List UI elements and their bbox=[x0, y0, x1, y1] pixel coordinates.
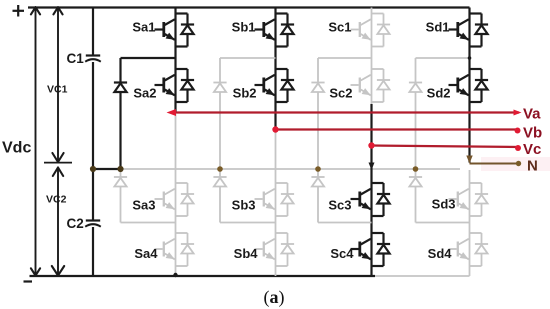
IGBT Sb1 bbox=[255, 14, 276, 47]
IGBT Sa4 bbox=[155, 233, 176, 266]
wire: negative DC bus (bottom rail, active part) bbox=[30, 275, 376, 277]
svg-text:Sd2: Sd2 bbox=[427, 86, 451, 101]
IGBT Sb2 bbox=[255, 69, 276, 102]
svg-text:Vdc: Vdc bbox=[2, 140, 31, 157]
antiparallel diode of Sc3 bbox=[372, 183, 391, 216]
svg-text:Sc3: Sc3 bbox=[328, 198, 351, 213]
svg-text:Sa4: Sa4 bbox=[134, 246, 158, 261]
IGBT Sc4 bbox=[351, 233, 372, 266]
IGBT Sd2 bbox=[449, 69, 470, 102]
svg-text:Sa3: Sa3 bbox=[132, 198, 155, 213]
clamp diode Dd1 (upper) bbox=[409, 58, 422, 169]
svg-text:Sa2: Sa2 bbox=[133, 86, 156, 101]
wire: neutral output N bbox=[470, 161, 522, 166]
capacitor C1 bbox=[85, 56, 101, 62]
wire: leg c output stub bbox=[369, 102, 375, 183]
node: clamp-b neutral junction bbox=[217, 166, 223, 172]
wire: phase output Vc bbox=[368, 142, 521, 151]
wire: phase output Va bbox=[167, 109, 522, 116]
svg-text:Sc4: Sc4 bbox=[330, 246, 354, 261]
antiparallel diode of Sb4 bbox=[276, 233, 295, 266]
node: capacitor midpoint junction bbox=[90, 166, 96, 172]
svg-text:Va: Va bbox=[523, 106, 541, 123]
IGBT Sb3 bbox=[255, 183, 276, 216]
antiparallel diode of Sb1 bbox=[276, 14, 295, 47]
antiparallel diode of Sa1 bbox=[176, 14, 195, 47]
node: clamp-c neutral junction bbox=[315, 166, 321, 172]
clamp diode Dd2 (lower) bbox=[409, 169, 422, 223]
svg-text:Sc1: Sc1 bbox=[328, 20, 351, 35]
node: minus terminal bbox=[24, 280, 33, 282]
wire: leg d upper main bbox=[468, 8, 470, 70]
wire: leg b upper main bbox=[274, 8, 276, 70]
wire: leg c junction-A link bbox=[318, 57, 372, 59]
svg-text:C2: C2 bbox=[67, 216, 84, 231]
IGBT Sa2 bbox=[155, 69, 176, 102]
svg-text:Sd4: Sd4 bbox=[428, 246, 453, 261]
svg-text:VC1: VC1 bbox=[47, 84, 68, 96]
wire: phase output Vb bbox=[272, 126, 520, 133]
svg-text:Sc2: Sc2 bbox=[329, 86, 352, 101]
clamp diode Da2 (lower) bbox=[114, 169, 127, 223]
wire: leg a junction-B link bbox=[121, 222, 176, 224]
wire: leg b lower main bbox=[275, 132, 277, 277]
wire: leg c lower main bbox=[370, 216, 372, 276]
clamp diode Dc2 (lower) bbox=[311, 169, 324, 223]
IGBT Sa1 bbox=[155, 14, 176, 47]
antiparallel diode of Sd3 bbox=[470, 183, 489, 216]
capacitor C2 bbox=[85, 221, 101, 227]
IGBT Sd1 bbox=[449, 14, 470, 47]
svg-text:(a): (a) bbox=[264, 287, 285, 308]
wire: faint artifact tint bbox=[481, 157, 550, 171]
wire: leg a junction-A link bbox=[121, 57, 176, 59]
wire: leg a lower main bbox=[175, 114, 177, 276]
antiparallel diode of Sb2 bbox=[276, 69, 295, 102]
wire: neutral bus (gray) bbox=[121, 168, 461, 170]
wire: VC2 dimension arrow bbox=[52, 168, 64, 276]
svg-text:Sb3: Sb3 bbox=[232, 198, 256, 213]
wire: leg a output stub bbox=[174, 102, 176, 113]
svg-text:Sa1: Sa1 bbox=[132, 20, 155, 35]
IGBT Sc3 bbox=[351, 183, 372, 216]
IGBT Sc2 bbox=[351, 69, 372, 102]
wire: VC1 dimension arrow bbox=[44, 7, 72, 162]
antiparallel diode of Sa4 bbox=[176, 233, 195, 266]
IGBT Sa3 bbox=[155, 183, 176, 216]
wire: leg b junction-B link bbox=[220, 222, 276, 224]
clamp diode Da1 (upper) bbox=[114, 58, 127, 169]
antiparallel diode of Sd2 bbox=[470, 69, 489, 102]
svg-text:N: N bbox=[527, 158, 538, 175]
clamp diode Db1 (upper) bbox=[213, 58, 226, 169]
node: plus terminal bbox=[13, 5, 25, 17]
clamp diode Db2 (lower) bbox=[213, 169, 226, 223]
wire: neutral bus (black segment from capacitor midpoint) bbox=[93, 168, 121, 170]
svg-text:C1: C1 bbox=[67, 51, 85, 66]
IGBT Sb4 bbox=[255, 233, 276, 266]
wire: leg c junction-B link bbox=[318, 222, 372, 224]
antiparallel diode of Sc2 bbox=[372, 69, 391, 102]
antiparallel diode of Sc4 bbox=[372, 233, 391, 266]
wire: leg c upper main bbox=[371, 8, 373, 70]
antiparallel diode of Sd1 bbox=[470, 14, 489, 47]
wire: leg d junction-A link bbox=[416, 57, 470, 59]
wire: Vdc dimension arrow bbox=[31, 7, 40, 275]
IGBT Sc1 bbox=[351, 14, 372, 47]
svg-text:Sd3: Sd3 bbox=[432, 197, 456, 212]
svg-text:Sb1: Sb1 bbox=[232, 20, 256, 35]
svg-text:VC2: VC2 bbox=[46, 194, 67, 206]
wire: leg d lower main bbox=[469, 170, 471, 276]
svg-text:Sd1: Sd1 bbox=[426, 20, 450, 35]
wire: leg b output stub bbox=[274, 102, 276, 130]
svg-text:Vc: Vc bbox=[523, 141, 541, 158]
antiparallel diode of Sc1 bbox=[372, 14, 391, 47]
antiparallel diode of Sd4 bbox=[470, 233, 489, 266]
svg-text:Sb4: Sb4 bbox=[234, 246, 259, 261]
wire: positive DC bus (top rail) bbox=[28, 6, 470, 8]
wire: leg a upper main bbox=[174, 8, 176, 70]
svg-text:Sb2: Sb2 bbox=[233, 86, 257, 101]
node: clamp-d neutral junction bbox=[413, 166, 419, 172]
wire: dc-link capacitor branch bbox=[92, 8, 94, 277]
antiparallel diode of Sa3 bbox=[176, 183, 195, 216]
wire: leg d output stub bbox=[466, 102, 472, 164]
node: clamp-a neutral junction bbox=[117, 166, 123, 172]
antiparallel diode of Sa2 bbox=[176, 69, 195, 102]
wire: negative DC bus (bottom rail, inactive part) bbox=[375, 275, 470, 277]
node: leg d junction-A joint bbox=[468, 56, 472, 60]
IGBT Sd4 bbox=[449, 233, 470, 266]
wire: leg d junction-B link bbox=[416, 222, 470, 224]
node: leg a bottom-rail joint bbox=[173, 273, 177, 277]
svg-text:Vb: Vb bbox=[523, 125, 542, 142]
IGBT Sd3 bbox=[449, 183, 470, 216]
wire: leg b junction-A link bbox=[220, 57, 276, 59]
clamp diode Dc1 (upper) bbox=[311, 58, 324, 169]
antiparallel diode of Sb3 bbox=[276, 183, 295, 216]
